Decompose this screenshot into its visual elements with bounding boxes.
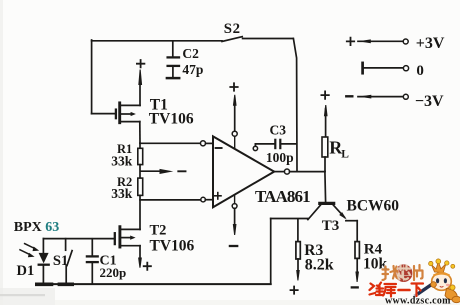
svg-text:www.dzsc.com: www.dzsc.com bbox=[385, 296, 451, 305]
svg-text:0: 0 bbox=[416, 63, 424, 79]
svg-text:+3V: +3V bbox=[416, 35, 445, 52]
svg-text:8.2k: 8.2k bbox=[305, 256, 334, 273]
svg-text:BCW60: BCW60 bbox=[347, 197, 400, 214]
svg-text:33k: 33k bbox=[111, 186, 133, 201]
svg-text:S1: S1 bbox=[53, 253, 68, 269]
svg-text:220p: 220p bbox=[100, 265, 127, 280]
svg-text:TAA861: TAA861 bbox=[255, 187, 310, 206]
svg-text:T2: T2 bbox=[150, 222, 167, 238]
svg-text:TV106: TV106 bbox=[150, 237, 195, 254]
svg-text:TV106: TV106 bbox=[149, 110, 194, 127]
svg-text:C3: C3 bbox=[270, 122, 287, 137]
svg-text:C2: C2 bbox=[182, 46, 199, 61]
svg-text:100p: 100p bbox=[266, 150, 294, 165]
svg-text:33k: 33k bbox=[111, 154, 133, 169]
svg-text:−3V: −3V bbox=[415, 93, 444, 110]
svg-text:S2: S2 bbox=[224, 21, 241, 37]
svg-text:L: L bbox=[341, 149, 349, 161]
svg-text:BPX 63: BPX 63 bbox=[14, 220, 60, 235]
svg-text:D1: D1 bbox=[17, 263, 35, 279]
svg-text:T3: T3 bbox=[322, 218, 340, 234]
svg-text:47p: 47p bbox=[182, 62, 203, 77]
